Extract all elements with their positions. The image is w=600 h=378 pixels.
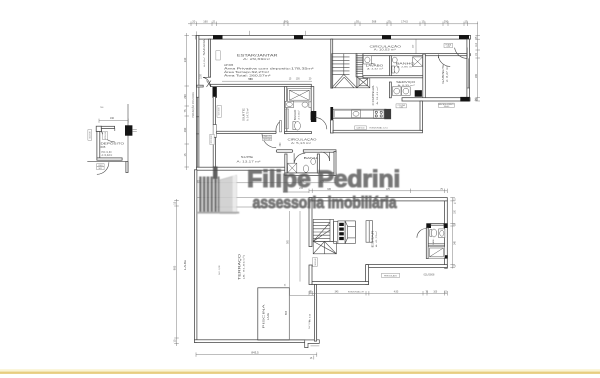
svg-text:368: 368 bbox=[372, 19, 377, 23]
svg-text:LAVABO: LAVABO bbox=[366, 64, 385, 68]
bottom dimension line terraco bbox=[196, 351, 317, 361]
column bottom right bbox=[460, 97, 469, 102]
svg-text:55: 55 bbox=[356, 19, 359, 23]
fridge dark bbox=[384, 109, 391, 119]
lower bottom dim line bbox=[309, 292, 447, 294]
top wall bbox=[196, 35, 471, 39]
svg-text:A: 29,69m²: A: 29,69m² bbox=[243, 58, 270, 61]
bottom wall servico/gabinete bbox=[402, 98, 470, 101]
svg-text:560: 560 bbox=[284, 19, 289, 23]
svg-text:905: 905 bbox=[173, 265, 177, 270]
svg-text:290: 290 bbox=[444, 19, 449, 23]
svg-text:A: 4,32 m²: A: 4,32 m² bbox=[367, 67, 383, 70]
svg-text:ESTAR/JANTAR: ESTAR/JANTAR bbox=[237, 53, 279, 57]
tick above wall mid bbox=[304, 31, 306, 35]
suite2 right wall bbox=[285, 154, 287, 175]
lower terrace ledge wall bbox=[312, 282, 369, 285]
deposito lower line bbox=[87, 161, 126, 163]
lower bath columns bbox=[426, 223, 431, 228]
hall door arc bbox=[365, 54, 375, 64]
lower bath walls bbox=[426, 228, 428, 259]
column P1 bbox=[213, 35, 223, 39]
svg-text:21: 21 bbox=[213, 19, 216, 23]
svg-text:SACADA: SACADA bbox=[202, 39, 206, 55]
sacada inner wall bbox=[209, 39, 211, 77]
washer machines bbox=[392, 87, 401, 96]
svg-text:15: 15 bbox=[173, 339, 177, 342]
svg-text:Filipe Pedrini: Filipe Pedrini bbox=[247, 167, 400, 193]
banho2 door arc bbox=[294, 153, 305, 164]
lower stair fan flight bbox=[313, 219, 333, 241]
kitchen right wall bbox=[420, 101, 423, 130]
svg-text:(A: 91,81m²): (A: 91,81m²) bbox=[242, 254, 245, 279]
svg-text:0,90: 0,90 bbox=[447, 46, 450, 48]
svg-text:A: 3,65m²: A: 3,65m² bbox=[298, 110, 301, 119]
wall below lower room bbox=[314, 285, 316, 342]
svg-text:CIRCULAÇÃO: CIRCULAÇÃO bbox=[288, 137, 318, 142]
column banho1 bbox=[311, 111, 316, 122]
svg-text:PERGOLADO: PERGOLADO bbox=[384, 274, 398, 277]
deposito right wall lower bbox=[126, 162, 128, 173]
lower stair rail bbox=[334, 222, 338, 244]
svg-text:GD5 0,60: GD5 0,60 bbox=[105, 132, 107, 139]
lower room top wall bbox=[309, 198, 447, 201]
svg-text:HORIZONTAL 2,7x1: HORIZONTAL 2,7x1 bbox=[370, 126, 389, 129]
stair hall left wall bbox=[331, 39, 333, 88]
banho sup toilet bbox=[392, 66, 394, 73]
ladder element with bars bbox=[338, 221, 345, 244]
svg-text:180x60: 180x60 bbox=[444, 106, 450, 108]
svg-text:NV. 0,00: NV. 0,00 bbox=[309, 313, 311, 322]
svg-text:HORIZONTAL 2,97: HORIZONTAL 2,97 bbox=[348, 290, 364, 293]
svg-text:GD2 0,60: GD2 0,60 bbox=[315, 258, 317, 265]
banho1 shower bbox=[288, 89, 311, 102]
svg-text:290: 290 bbox=[183, 127, 187, 132]
deposito door arc bbox=[101, 128, 115, 142]
svg-text:A: 11,41 m²: A: 11,41 m² bbox=[376, 86, 379, 104]
watermark text Filipe Pedrini bbox=[247, 167, 400, 212]
svg-text:A: 13,17 m²: A: 13,17 m² bbox=[237, 160, 261, 163]
kitchen left wall black top bbox=[330, 107, 333, 120]
wall under lavabo/banho bbox=[363, 76, 423, 78]
column P2 bbox=[294, 35, 303, 39]
svg-text:P.D.=1,60: P.D.=1,60 bbox=[102, 152, 113, 154]
banho1 toilet bbox=[293, 122, 295, 130]
closet wall below column bbox=[213, 97, 215, 125]
dim 215 line above lower room bbox=[283, 191, 309, 193]
lower room left wall lower bbox=[309, 265, 312, 285]
svg-text:SUITE: SUITE bbox=[241, 155, 253, 159]
svg-text:SERVIÇO: SERVIÇO bbox=[396, 80, 416, 84]
kitchen door arc bbox=[315, 118, 327, 130]
GD labels lower left bbox=[313, 258, 317, 267]
deposito bottom wall bbox=[97, 158, 122, 160]
terraco bottom wall bbox=[194, 340, 305, 343]
sideboard bbox=[366, 221, 373, 243]
suite1 door arc bbox=[276, 121, 281, 132]
banho1 sink bbox=[285, 101, 293, 107]
terraco bottom step bbox=[305, 340, 320, 348]
svg-text:605: 605 bbox=[101, 145, 106, 149]
deposito top-left post bbox=[96, 126, 101, 131]
wall above lavabo/banho bbox=[363, 54, 470, 56]
svg-text:Área Total: 260,57m²: Área Total: 260,57m² bbox=[224, 73, 271, 77]
closet GD1 label lower bbox=[210, 134, 214, 144]
lavabo/banho divider wall bbox=[389, 56, 391, 77]
lower room left wall upper bbox=[309, 198, 312, 247]
tanque black bbox=[415, 90, 422, 97]
gabinete door arc bbox=[438, 55, 450, 67]
svg-text:15: 15 bbox=[465, 19, 468, 23]
svg-text:A.=4,02m²: A.=4,02m² bbox=[102, 154, 113, 157]
coluna label bbox=[396, 104, 406, 108]
svg-text:A: 6,35 m²: A: 6,35 m² bbox=[398, 84, 415, 87]
piscina box bbox=[258, 288, 290, 340]
closet GD1 label upper bbox=[217, 106, 221, 118]
terrace boundary projection line bbox=[197, 197, 309, 199]
laje tecnica label bbox=[355, 126, 367, 130]
lower bath shower bbox=[428, 247, 445, 259]
yellow separator line bbox=[0, 369, 600, 372]
servico left wall bbox=[389, 82, 391, 98]
svg-text:LAJE 0,60: LAJE 0,60 bbox=[357, 126, 365, 129]
deposito lower label boxes bbox=[97, 164, 104, 167]
svg-text:COZINHA: COZINHA bbox=[371, 85, 375, 105]
svg-text:GD2 0,60: GD2 0,60 bbox=[263, 139, 270, 141]
svg-text:GD1 0,60: GD1 0,60 bbox=[211, 136, 213, 144]
lower stair triangle bbox=[313, 241, 336, 253]
suite2 bottom wall bbox=[196, 167, 287, 170]
closet room door arc bbox=[321, 152, 330, 161]
svg-text:BANHO: BANHO bbox=[293, 109, 297, 120]
svg-text:NV. -0,36: NV. -0,36 bbox=[219, 265, 221, 275]
svg-text:LAJE: LAJE bbox=[183, 260, 187, 271]
svg-text:330: 330 bbox=[183, 57, 187, 62]
lower bath divider bbox=[428, 243, 445, 245]
svg-text:75: 75 bbox=[183, 109, 187, 112]
svg-text:290: 290 bbox=[183, 94, 187, 99]
svg-text:CIRCULAÇÃO: CIRCULAÇÃO bbox=[370, 43, 403, 48]
lower room bottom wall bbox=[366, 265, 447, 268]
svg-text:A: 41,70m²: A: 41,70m² bbox=[375, 231, 378, 247]
dim line under suite2 bbox=[196, 182, 336, 184]
svg-text:A=3,13m²: A=3,13m² bbox=[203, 57, 206, 67]
banho2 inner wall bbox=[317, 154, 319, 173]
svg-text:CM81: CM81 bbox=[98, 165, 103, 167]
bancada label bbox=[439, 103, 455, 107]
svg-text:174,5: 174,5 bbox=[401, 19, 408, 23]
lavabo sink bbox=[364, 56, 372, 64]
wall estar/suite1 bbox=[197, 85, 204, 87]
svg-text:A: 5,13 m²: A: 5,13 m² bbox=[291, 142, 311, 145]
upper stair flight box bbox=[332, 54, 357, 88]
banho1 bottom bbox=[285, 132, 312, 134]
svg-text:A: 2,85 m²: A: 2,85 m² bbox=[397, 66, 413, 69]
kitchen bottom wall bbox=[333, 130, 422, 133]
lower right dim line bbox=[452, 198, 454, 269]
deposito detail: grid line bbox=[127, 104, 129, 173]
closet right wall bbox=[334, 151, 336, 175]
svg-text:A: 14,75 m²: A: 14,75 m² bbox=[246, 108, 249, 121]
banho1 bench bbox=[285, 109, 288, 129]
wall suite1 bottom / circulacao bbox=[216, 131, 276, 133]
gabinete right wall bbox=[467, 39, 470, 98]
banho1 left wall bbox=[285, 87, 287, 134]
svg-text:GD5 0,60: GD5 0,60 bbox=[90, 131, 92, 138]
banho sup shower bbox=[413, 57, 423, 66]
svg-text:15: 15 bbox=[422, 19, 425, 23]
column P3 bbox=[382, 35, 391, 39]
entry door arc top right bbox=[455, 48, 468, 59]
svg-text:SUITE: SUITE bbox=[242, 108, 246, 121]
svg-text:MD7: MD7 bbox=[99, 168, 103, 170]
svg-text:LAJE: LAJE bbox=[266, 313, 270, 320]
svg-text:560: 560 bbox=[248, 77, 253, 81]
upper stair second flight bbox=[356, 54, 363, 77]
column mid kitchen bbox=[311, 112, 316, 120]
deposito side label left bbox=[88, 130, 92, 140]
servico/gabinete wall bbox=[423, 54, 426, 98]
left outer wall bbox=[196, 35, 199, 170]
banho1 right wall bbox=[311, 87, 314, 112]
entry door label boxes bbox=[444, 43, 453, 47]
svg-text:4,95: 4,95 bbox=[394, 291, 399, 293]
svg-text:15: 15 bbox=[183, 153, 187, 156]
window glass line left wall bbox=[197, 97, 199, 167]
svg-text:BANHO: BANHO bbox=[396, 62, 417, 66]
deposito column black bbox=[125, 125, 132, 135]
svg-text:843,5: 843,5 bbox=[251, 351, 259, 355]
deposito lower door arc bbox=[97, 162, 109, 174]
column P4 bbox=[459, 35, 469, 39]
banho2 top wall bbox=[276, 150, 292, 152]
svg-text:A: 10,03 m²: A: 10,03 m² bbox=[374, 49, 396, 52]
svg-text:PISCINA: PISCINA bbox=[262, 305, 266, 329]
svg-text:20: 20 bbox=[192, 19, 195, 23]
pergolado label bbox=[382, 273, 400, 277]
svg-text:A: 8,27 m²: A: 8,27 m² bbox=[446, 66, 449, 82]
deposito left wall bbox=[97, 132, 100, 160]
svg-text:160: 160 bbox=[203, 19, 208, 23]
piscina outer area bbox=[289, 295, 317, 340]
banho2 shower bbox=[288, 163, 297, 173]
svg-text:CM8 0,72: CM8 0,72 bbox=[263, 136, 270, 138]
kitchen sink bbox=[352, 110, 361, 117]
svg-text:0,60: 0,60 bbox=[400, 107, 403, 109]
right dimension line bbox=[477, 26, 479, 101]
svg-text:PROJEÇÃO MOLDURA: PROJEÇÃO MOLDURA bbox=[192, 92, 195, 118]
lower room top dim line bbox=[309, 190, 447, 192]
left vertical dimension line (upper) bbox=[183, 33, 189, 170]
banho2 sink bbox=[311, 159, 316, 165]
svg-text:TERRAÇO: TERRAÇO bbox=[238, 253, 242, 280]
svg-text:GABINETE: GABINETE bbox=[441, 64, 445, 84]
svg-text:2,08: 2,08 bbox=[201, 74, 203, 79]
stair landing with X bbox=[357, 77, 370, 88]
svg-text:ESTAR: ESTAR bbox=[370, 229, 374, 247]
svg-text:190: 190 bbox=[110, 117, 115, 120]
deposito GD5 box label bbox=[103, 132, 108, 140]
svg-text:25: 25 bbox=[388, 19, 391, 23]
banho1 bidet bbox=[302, 102, 308, 107]
svg-text:110: 110 bbox=[475, 42, 478, 46]
lower bath sink bbox=[439, 229, 445, 238]
banho2 toilet bbox=[303, 165, 308, 172]
sacada door arc bbox=[203, 77, 210, 87]
svg-text:GD1 0,60: GD1 0,60 bbox=[218, 108, 220, 116]
lower room right wall bbox=[445, 201, 448, 268]
svg-text:565: 565 bbox=[285, 310, 288, 315]
banho2 bottom wall bbox=[285, 173, 336, 176]
svg-text:265: 265 bbox=[475, 73, 478, 78]
top dimension line bbox=[188, 19, 478, 26]
deposito top wall bbox=[101, 126, 114, 128]
stove bbox=[374, 110, 384, 118]
terraco left wall bbox=[194, 170, 197, 343]
svg-text:02L/03/08: 02L/03/08 bbox=[424, 274, 435, 277]
left vertical dimension line (terraco) bbox=[173, 199, 187, 346]
watermark building icon bbox=[197, 167, 239, 214]
armchair element bbox=[345, 221, 355, 244]
pergola projection verticals bbox=[289, 211, 291, 288]
dims 15 105 20 above banho1 bbox=[289, 79, 312, 81]
lower room bottom-left vertical wall bbox=[366, 265, 369, 285]
lower bath toilet bbox=[430, 230, 432, 237]
svg-text:15: 15 bbox=[173, 201, 177, 204]
svg-text:assessoria imobiliária: assessoria imobiliária bbox=[253, 194, 398, 212]
banho sup sink bbox=[392, 57, 397, 63]
column sacada bbox=[213, 86, 217, 98]
kitchen counter bbox=[333, 109, 386, 118]
lower bath door arc bbox=[417, 229, 426, 238]
